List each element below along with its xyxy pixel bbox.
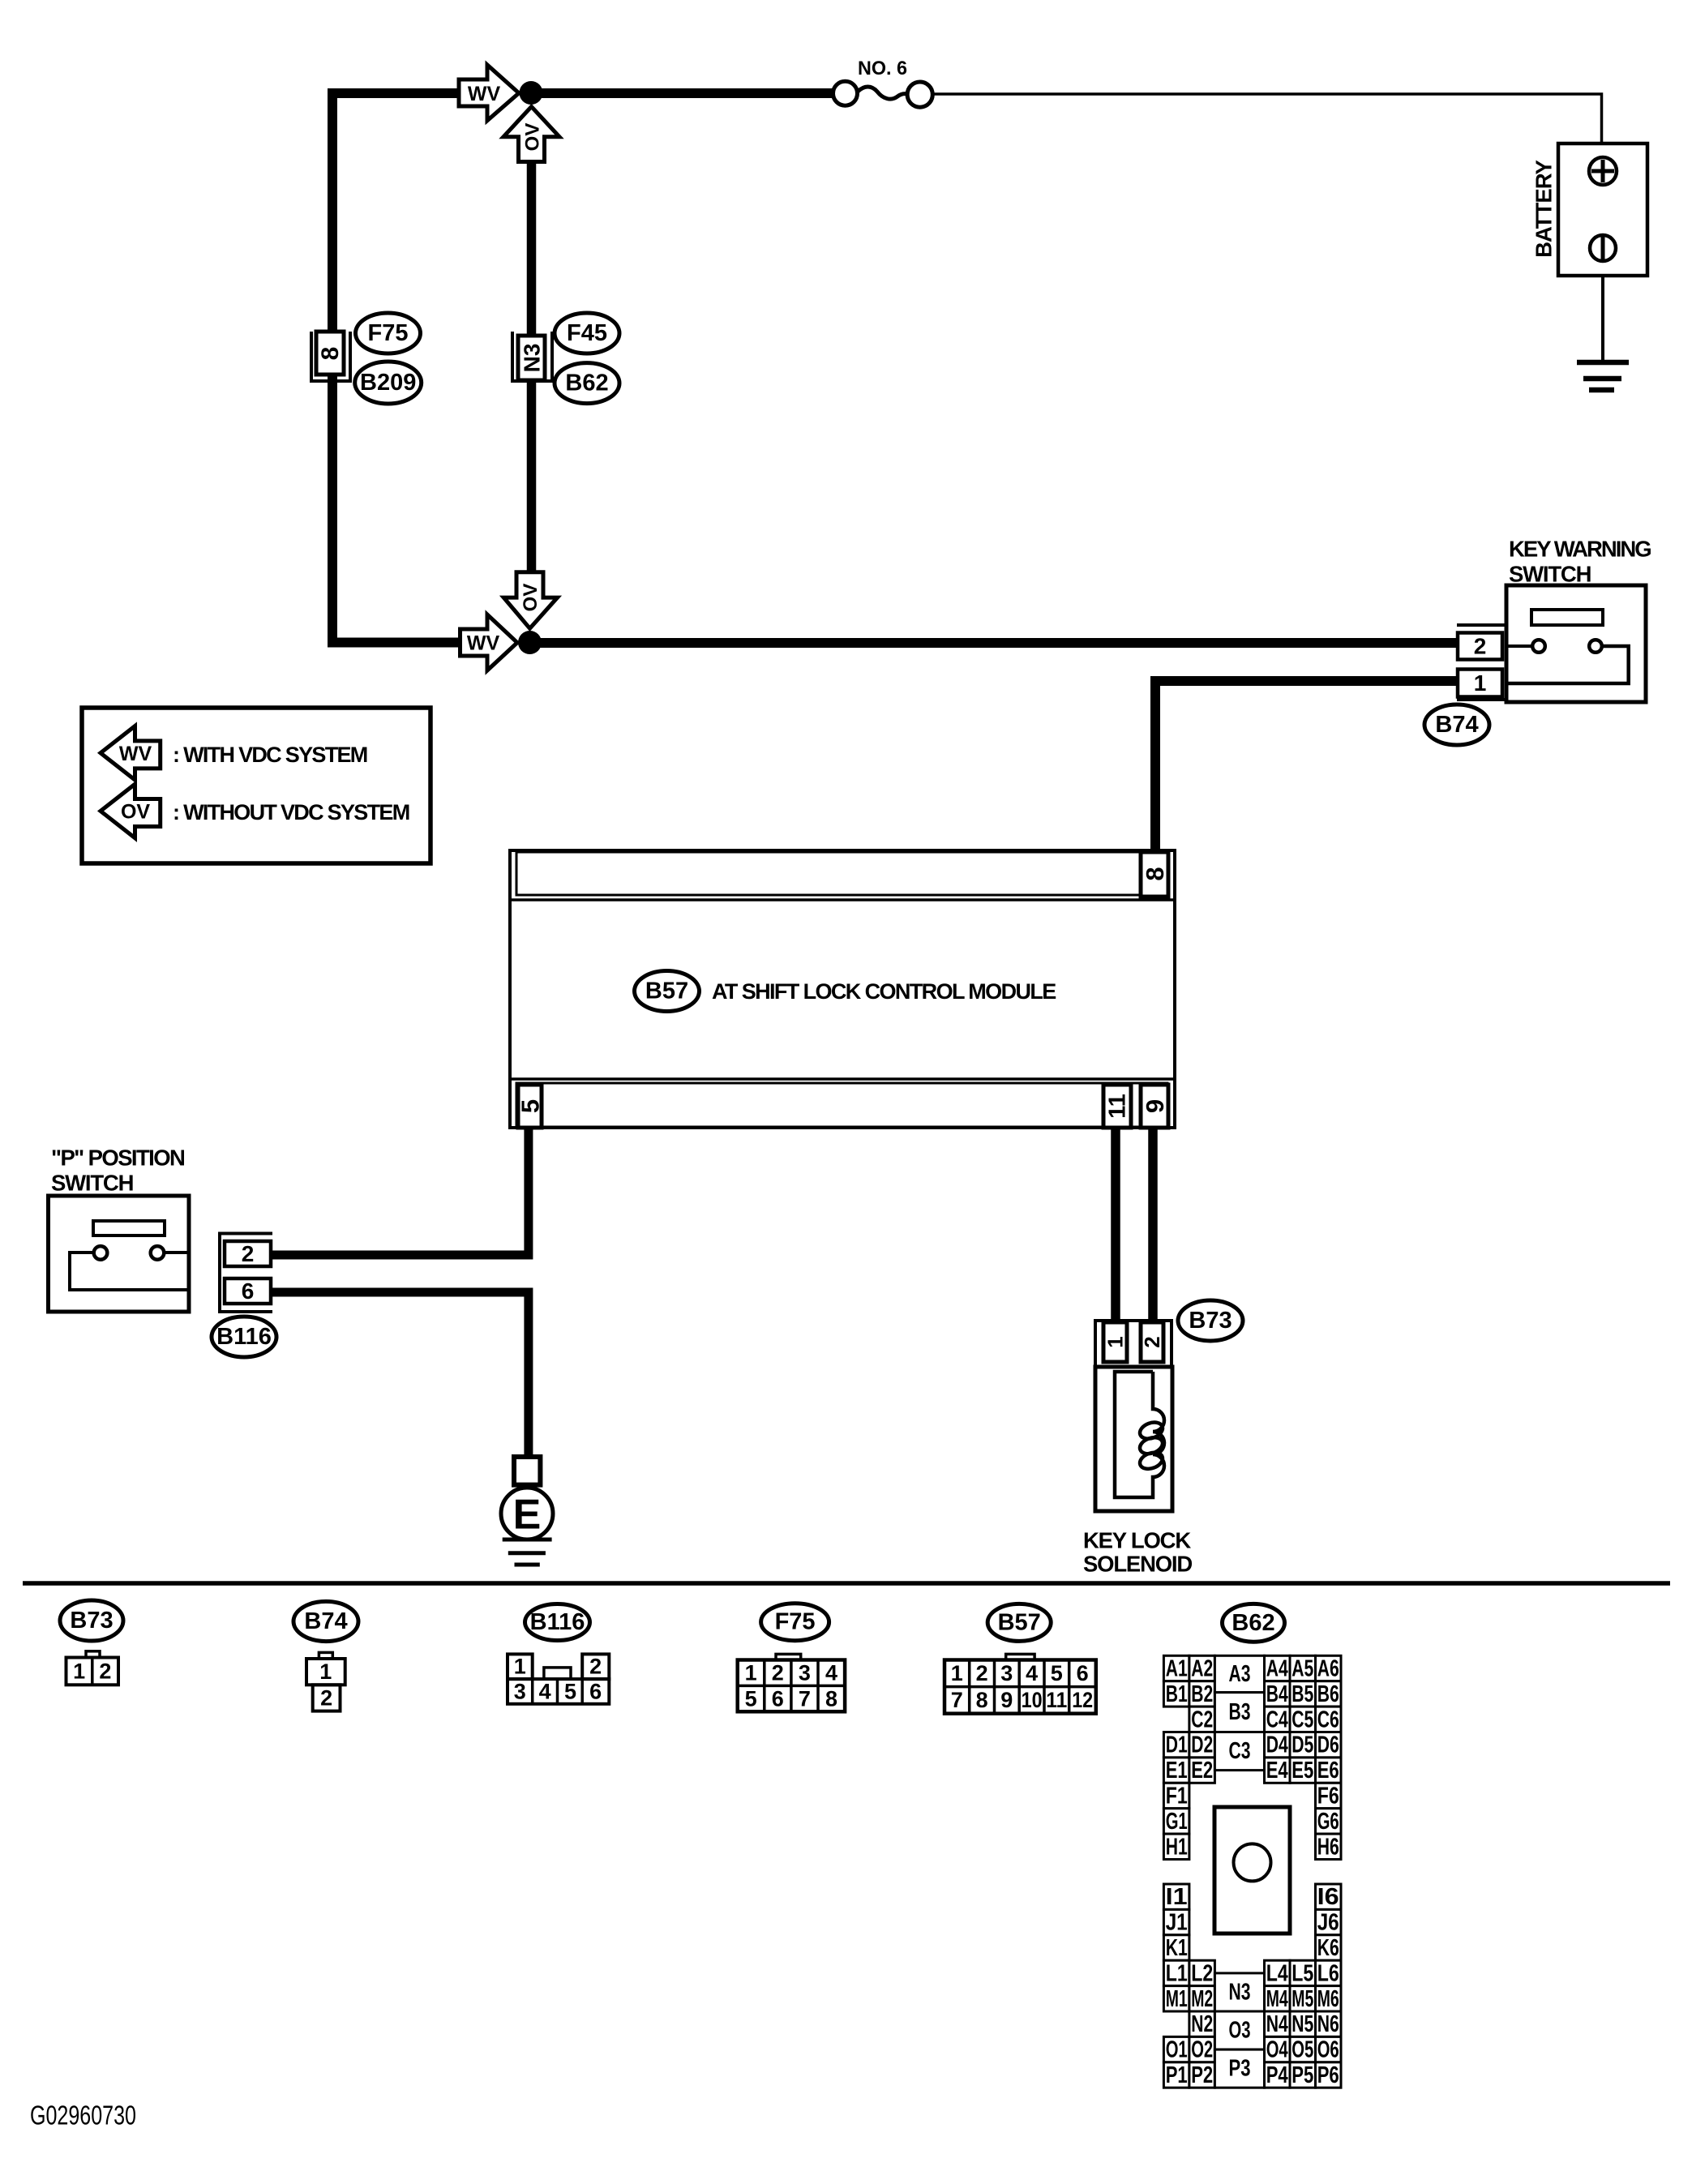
svg-text:B74: B74 (1435, 712, 1478, 738)
svg-text:WV: WV (467, 632, 500, 655)
svg-text:L1: L1 (1166, 1960, 1188, 1986)
svg-text:B3: B3 (1229, 1699, 1251, 1725)
svg-text:M6: M6 (1317, 1986, 1339, 2012)
svg-text:H6: H6 (1317, 1834, 1339, 1860)
svg-text:11: 11 (1105, 1094, 1131, 1119)
svg-text:L4: L4 (1266, 1960, 1288, 1986)
svg-text:E6: E6 (1317, 1758, 1339, 1784)
svg-text:N6: N6 (1317, 2011, 1339, 2037)
svg-text:2: 2 (772, 1660, 784, 1685)
svg-text:C6: C6 (1317, 1707, 1339, 1732)
svg-text:A5: A5 (1291, 1656, 1313, 1682)
svg-text:B74: B74 (304, 1608, 347, 1634)
svg-text:K6: K6 (1317, 1935, 1339, 1961)
svg-text:M1: M1 (1166, 1986, 1188, 2012)
svg-text:6: 6 (589, 1679, 602, 1703)
svg-text:G02960730: G02960730 (30, 2100, 136, 2130)
svg-text:"P" POSITION: "P" POSITION (51, 1146, 184, 1171)
svg-text:F75: F75 (775, 1609, 816, 1635)
svg-text:C2: C2 (1191, 1707, 1213, 1732)
svg-text:3: 3 (514, 1679, 526, 1703)
svg-text:A6: A6 (1317, 1656, 1339, 1682)
svg-text:I6: I6 (1317, 1884, 1339, 1910)
svg-text:B73: B73 (70, 1608, 113, 1634)
svg-text:: WITHOUT VDC SYSTEM: : WITHOUT VDC SYSTEM (173, 800, 409, 824)
svg-text:C5: C5 (1291, 1707, 1313, 1732)
svg-text:B5: B5 (1291, 1681, 1313, 1707)
svg-text:C3: C3 (1229, 1738, 1251, 1764)
svg-text:: WITH VDC SYSTEM: : WITH VDC SYSTEM (173, 743, 367, 767)
svg-text:AT SHIFT LOCK CONTROL MODULE: AT SHIFT LOCK CONTROL MODULE (712, 979, 1056, 1004)
svg-text:WV: WV (468, 83, 501, 105)
svg-text:2: 2 (1140, 1336, 1164, 1347)
svg-text:12: 12 (1072, 1688, 1093, 1712)
svg-text:6: 6 (242, 1278, 255, 1304)
svg-text:G6: G6 (1317, 1809, 1339, 1835)
svg-text:2: 2 (242, 1241, 255, 1266)
svg-text:O4: O4 (1266, 2037, 1288, 2063)
svg-text:B116: B116 (216, 1324, 272, 1350)
svg-text:N4: N4 (1266, 2011, 1288, 2037)
svg-text:A1: A1 (1166, 1656, 1188, 1682)
svg-text:OV: OV (522, 123, 544, 152)
svg-text:F75: F75 (368, 320, 409, 346)
svg-text:D6: D6 (1317, 1732, 1339, 1758)
svg-text:2: 2 (99, 1659, 111, 1683)
svg-text:2: 2 (976, 1661, 988, 1685)
svg-text:L5: L5 (1291, 1960, 1313, 1986)
svg-text:B4: B4 (1266, 1681, 1288, 1707)
svg-text:O5: O5 (1291, 2037, 1313, 2063)
svg-text:L6: L6 (1317, 1960, 1339, 1986)
svg-text:10: 10 (1022, 1688, 1043, 1712)
svg-text:B57: B57 (998, 1609, 1041, 1635)
svg-text:N3: N3 (520, 344, 545, 373)
svg-text:B209: B209 (360, 370, 416, 396)
svg-text:G1: G1 (1166, 1809, 1188, 1835)
svg-text:O2: O2 (1191, 2037, 1213, 2063)
svg-text:SOLENOID: SOLENOID (1083, 1552, 1192, 1577)
svg-text:H1: H1 (1166, 1834, 1188, 1860)
svg-text:P1: P1 (1166, 2062, 1188, 2088)
svg-text:6: 6 (772, 1686, 784, 1711)
svg-text:KEY LOCK: KEY LOCK (1083, 1528, 1191, 1553)
svg-text:E4: E4 (1266, 1758, 1288, 1784)
svg-text:A4: A4 (1266, 1656, 1288, 1682)
svg-text:SWITCH: SWITCH (1509, 562, 1591, 587)
svg-text:N5: N5 (1291, 2011, 1313, 2037)
svg-text:E1: E1 (1166, 1758, 1188, 1784)
svg-text:P6: P6 (1317, 2062, 1339, 2088)
svg-text:2: 2 (320, 1685, 332, 1710)
svg-text:7: 7 (799, 1686, 811, 1711)
svg-text:E5: E5 (1291, 1758, 1313, 1784)
svg-text:2: 2 (589, 1655, 602, 1679)
svg-text:11: 11 (1046, 1688, 1067, 1712)
svg-text:E: E (513, 1492, 542, 1539)
svg-text:1: 1 (73, 1659, 85, 1683)
svg-text:6: 6 (1077, 1661, 1089, 1685)
svg-text:8: 8 (1141, 867, 1169, 880)
svg-text:P5: P5 (1291, 2062, 1313, 2088)
svg-text:F1: F1 (1166, 1784, 1188, 1809)
svg-text:O3: O3 (1229, 2018, 1251, 2044)
svg-text:1: 1 (319, 1659, 332, 1684)
svg-text:BATTERY: BATTERY (1531, 160, 1557, 257)
svg-text:P4: P4 (1266, 2062, 1288, 2088)
svg-text:B116: B116 (530, 1609, 585, 1635)
svg-text:A3: A3 (1229, 1661, 1251, 1687)
svg-text:4: 4 (825, 1660, 837, 1685)
svg-text:8: 8 (825, 1686, 837, 1711)
svg-text:O1: O1 (1166, 2037, 1188, 2063)
svg-text:1: 1 (745, 1660, 757, 1685)
svg-text:I1: I1 (1166, 1884, 1188, 1910)
svg-text:N3: N3 (1229, 1979, 1251, 2005)
svg-text:C4: C4 (1266, 1707, 1288, 1732)
svg-text:OV: OV (121, 801, 150, 824)
svg-text:B62: B62 (565, 370, 608, 396)
svg-text:D1: D1 (1166, 1732, 1188, 1758)
svg-text:7: 7 (951, 1688, 963, 1712)
svg-text:WV: WV (119, 743, 152, 765)
svg-text:8: 8 (317, 347, 344, 361)
svg-text:J1: J1 (1166, 1910, 1188, 1936)
svg-text:J6: J6 (1317, 1910, 1339, 1936)
svg-text:L2: L2 (1191, 1960, 1213, 1986)
svg-text:KEY WARNING: KEY WARNING (1509, 537, 1651, 562)
svg-text:D2: D2 (1191, 1732, 1213, 1758)
svg-text:8: 8 (976, 1688, 988, 1712)
svg-text:B2: B2 (1191, 1681, 1213, 1707)
svg-text:9: 9 (1141, 1099, 1169, 1113)
svg-text:D4: D4 (1266, 1732, 1288, 1758)
svg-text:B1: B1 (1166, 1681, 1188, 1707)
svg-text:P3: P3 (1229, 2056, 1251, 2082)
svg-text:5: 5 (564, 1679, 576, 1703)
svg-text:5: 5 (1051, 1661, 1063, 1685)
svg-text:3: 3 (799, 1660, 811, 1685)
svg-text:A2: A2 (1191, 1656, 1213, 1682)
svg-text:P2: P2 (1191, 2062, 1213, 2088)
svg-text:B6: B6 (1317, 1681, 1339, 1707)
svg-text:9: 9 (1000, 1688, 1013, 1712)
svg-text:F45: F45 (567, 320, 607, 346)
svg-text:F6: F6 (1317, 1784, 1339, 1809)
svg-text:1: 1 (1103, 1336, 1128, 1347)
svg-text:4: 4 (1026, 1661, 1038, 1685)
svg-text:5: 5 (745, 1686, 757, 1711)
svg-text:K1: K1 (1166, 1935, 1188, 1961)
svg-text:NO. 6: NO. 6 (858, 58, 907, 79)
svg-text:B62: B62 (1232, 1610, 1274, 1636)
svg-text:1: 1 (951, 1661, 963, 1685)
svg-text:1: 1 (1474, 670, 1487, 696)
svg-text:E2: E2 (1191, 1758, 1213, 1784)
svg-text:4: 4 (539, 1679, 551, 1703)
svg-text:1: 1 (514, 1655, 526, 1679)
svg-text:O6: O6 (1317, 2037, 1339, 2063)
svg-text:D5: D5 (1291, 1732, 1313, 1758)
svg-text:B73: B73 (1189, 1308, 1232, 1334)
svg-text:M2: M2 (1191, 1986, 1213, 2012)
svg-text:B57: B57 (645, 979, 688, 1004)
svg-text:SWITCH: SWITCH (51, 1171, 133, 1196)
svg-text:2: 2 (1474, 634, 1487, 659)
svg-text:M4: M4 (1266, 1986, 1288, 2012)
svg-text:N2: N2 (1191, 2011, 1213, 2037)
svg-text:OV: OV (520, 584, 542, 612)
svg-text:3: 3 (1000, 1661, 1013, 1685)
svg-text:M5: M5 (1291, 1986, 1313, 2012)
svg-text:5: 5 (516, 1099, 545, 1113)
